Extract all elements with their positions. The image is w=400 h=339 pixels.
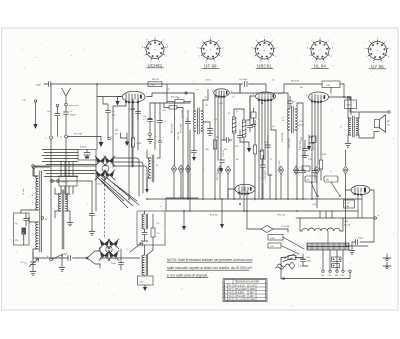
svg-text:G: G (32, 195, 34, 197)
svg-text:27kΩ: 27kΩ (150, 85, 156, 87)
svg-text:M: M (45, 219, 47, 221)
node L (50, 136, 53, 139)
faint scan bleed-through (40, 30, 217, 57)
svg-text:C9 3300: C9 3300 (182, 109, 184, 118)
svg-text:50+50: 50+50 (344, 224, 351, 226)
svg-text:R15 470k: R15 470k (282, 132, 284, 142)
IF transformer IFT1 (187, 93, 203, 199)
svg-text:C16-17: C16-17 (96, 184, 104, 186)
terminals under dropper (322, 250, 324, 270)
mains switch S2 (281, 254, 303, 262)
OM oscillator coil (142, 255, 145, 275)
label plates (305, 176, 317, 182)
wires gang to right (113, 158, 147, 196)
line y218 (296, 217, 374, 219)
svg-text:50pF: 50pF (36, 85, 42, 87)
wire: ground/cathode bus (166, 210, 358, 212)
UCH81 pin wires (113, 99, 138, 199)
svg-text:NOTA: Tutte le tensioni indica: NOTA: Tutte le tensioni indicate nel pre… (167, 258, 253, 262)
cap + label x188 before IFT1 (186, 110, 191, 199)
svg-text:~~~~ ~~ ~~~~~ ~~: ~~~~ ~~ ~~~~~ ~~ (50, 48, 84, 53)
svg-text:= resist.: = resist. (298, 257, 306, 260)
small box x253 (251, 112, 256, 118)
svg-text:IFT2: IFT2 (283, 116, 285, 121)
dial lamps / pilot connectors (171, 165, 176, 173)
rating plate (344, 200, 355, 208)
wire: AVC bus (mid) (147, 198, 362, 200)
svg-text:= pot.: = pot. (298, 265, 304, 268)
fan wires gang to osc coil (96, 176, 139, 208)
IFT2 (283, 103, 297, 199)
wire: top HT bus (51, 84, 266, 91)
filter cap 50uF (352, 240, 374, 251)
svg-text:0,5A: 0,5A (345, 205, 350, 208)
svg-text:0,02µF: 0,02µF (297, 125, 305, 127)
RF chokes (hatched) (232, 117, 236, 133)
tube UBC81 (256, 92, 276, 101)
cap + trimmer inside box (141, 233, 148, 242)
ground arrow left of UCH81 (118, 97, 122, 102)
padder box left of gang (78, 150, 96, 161)
wire verticals mid-section (183, 120, 190, 211)
mech link dashed (104, 172, 106, 239)
svg-text:R.TV: R.TV (345, 203, 351, 205)
svg-text:R15 0,5M: R15 0,5M (289, 138, 291, 148)
svg-text:0,01µF: 0,01µF (345, 98, 353, 100)
resistors/caps on verticals (213, 140, 216, 149)
svg-text:50µF: 50µF (358, 238, 364, 240)
small legend box + diamond (288, 256, 296, 260)
OC oscillator shield box (137, 211, 165, 245)
resistor R1 to chassis (68, 136, 102, 138)
right-edge aerial/earth terminals (383, 254, 391, 258)
diamond x296 on lamp row (293, 166, 298, 174)
svg-text:5000: 5000 (306, 260, 312, 262)
coil L7 inside (142, 214, 145, 229)
svg-text:5000: 5000 (270, 238, 276, 240)
anode run to IFT2 (240, 84, 288, 109)
grounds below detector (221, 199, 223, 224)
svg-text:C13 5000: C13 5000 (265, 170, 267, 180)
junction line y181 (51, 180, 54, 183)
junction dot UBC81 (261, 102, 263, 104)
output transformer T1 (341, 96, 379, 140)
screen grid network (150, 84, 190, 103)
junction dots (65, 198, 67, 200)
tube socket UBC81 (basing diagram) (251, 37, 278, 68)
inline resistor R9 on bus (148, 82, 162, 87)
anode wire to IFT1 (147, 93, 195, 111)
svg-text:R3 27k: R3 27k (171, 97, 179, 99)
capacitor C1 50pF at HT corner (44, 82, 51, 87)
earth switch + terminal (50, 258, 53, 261)
svg-text:R15 0,5M: R15 0,5M (279, 160, 281, 170)
coil L2 (ferrite) (36, 222, 39, 249)
tube UY85 rectifier (351, 185, 370, 194)
extra mid caps/grounds (det/IF area) (208, 129, 213, 134)
wire from band switch (100, 257, 140, 259)
svg-text:UCH81: UCH81 (148, 63, 163, 68)
ground right of pot (287, 229, 289, 232)
svg-text:R6 0,15M: R6 0,15M (172, 123, 174, 133)
tuning gang section 2 (arrows) (99, 239, 119, 261)
speaker AP (375, 115, 391, 132)
svg-text:~ ~~~~ ~: ~ ~~~~ ~ (200, 30, 217, 35)
svg-text:100pF: 100pF (70, 115, 77, 117)
scan speckle (9, 37, 394, 306)
ground under OT (345, 140, 351, 147)
volume pot (diamond) (247, 228, 288, 230)
svg-text:C8 50: C8 50 (205, 80, 212, 82)
svg-text:0,5pF: 0,5pF (62, 254, 68, 256)
long HT vertical to rectifier (346, 150, 369, 246)
screen caps (261, 155, 266, 199)
svg-text:UL 84: UL 84 (314, 63, 326, 68)
caps/resistors under UBC81 (260, 150, 263, 159)
svg-text:470pF: 470pF (80, 147, 87, 149)
svg-text:R16 10k: R16 10k (277, 215, 286, 217)
line cap (301, 254, 309, 266)
voltage table (223, 279, 267, 302)
capacitor C2 (64, 106, 69, 135)
svg-text:C11 50: C11 50 (223, 149, 225, 157)
ballast dropper (hatched) (307, 243, 349, 250)
mixer bias parts (121, 133, 128, 142)
tube socket UY 85 (basing diagram) (364, 38, 391, 69)
svg-text:25pF: 25pF (111, 263, 117, 265)
tuning gang C16/C17 (arrows) (95, 156, 115, 180)
svg-text:OM: OM (140, 282, 144, 284)
electrolytic marker (148, 118, 152, 119)
tone boxes (268, 235, 283, 241)
svg-text:~~ ~~~~ ~~~: ~~ ~~~~ ~~~ (95, 40, 119, 45)
heater chain scallops (302, 228, 340, 231)
pin seals (125, 101, 127, 103)
junction circle on R1 line (108, 137, 111, 140)
component value labels (152, 79, 332, 206)
coupling coils L3 L4 (62, 190, 64, 249)
svg-text:TENSIONI DI LAVORO: TENSIONI DI LAVORO (235, 281, 260, 284)
cap under IFT1, ground (192, 151, 197, 158)
ground (arrow) at R1 (100, 137, 102, 143)
tube socket UL 84 (basing diagram) (307, 37, 334, 68)
wire: left drop from HT bus (50, 84, 52, 258)
svg-text:R7 0,18M: R7 0,18M (181, 123, 183, 133)
trimmer C3 and ground (31, 252, 36, 271)
grid cap C5 (103, 97, 111, 138)
fuse boxes (332, 257, 342, 262)
switch block box (59, 176, 77, 186)
wire y166 ferrite to gang (32, 165, 35, 168)
svg-text:~~ ~~~: ~~ ~~~ (120, 52, 133, 57)
svg-text:presa ant.: presa ant. (69, 104, 79, 107)
svg-text:R13 0,5M: R13 0,5M (268, 135, 270, 145)
tone cap 0,01 box (345, 100, 357, 109)
note text (167, 258, 253, 278)
wire bundle to band switch (42, 150, 78, 162)
svg-text:e con radio priva di segnale.: e con radio priva di segnale. (167, 274, 208, 278)
node F (65, 135, 68, 138)
power-side diamonds (217, 166, 222, 174)
svg-text:UF 89: UF 89 (204, 63, 217, 68)
wire: UBC81 anode to UL84 grid (279, 84, 344, 93)
svg-text:R14 4k7: R14 4k7 (210, 215, 219, 217)
capacitor Ca (series, top bus) (245, 82, 248, 87)
svg-text:R1 470k: R1 470k (74, 134, 83, 136)
svg-text:121 a 105V: 121 a 105V (235, 298, 248, 301)
svg-text:BU: BU (326, 180, 329, 182)
auto-antenna lead (34, 100, 36, 102)
osc cathode junctions (159, 140, 162, 143)
caps at 297/303 (295, 171, 306, 200)
extra verticals fill (247, 96, 253, 132)
svg-text:Rg 500k: Rg 500k (291, 81, 300, 83)
node on y167 line (33, 166, 36, 169)
svg-text:UY 85: UY 85 (371, 64, 384, 69)
svg-text:~~~~~ ~~~ ~~~~~: ~~~~~ ~~~ ~~~~~ (40, 34, 73, 39)
svg-text:R8 2,2M: R8 2,2M (217, 172, 219, 180)
screen resistor boxes right of tube (175, 100, 184, 103)
tube UBC81 diode section (detector) (235, 184, 255, 194)
svg-text:OM-OC: OM-OC (61, 182, 69, 184)
resistor R2 on x138 (131, 138, 134, 147)
wire bottom-left run (33, 252, 87, 258)
wires into box (145, 245, 154, 255)
tube UF89 (214, 89, 230, 97)
UL84 screen resistor w/ ground (309, 135, 313, 143)
caps under UCH81 (136, 99, 141, 120)
tube socket UF 89 (basing diagram) (197, 37, 224, 68)
ground L4 (67, 218, 73, 226)
aux antenna tap (56, 104, 58, 106)
cathode R/C (319, 160, 322, 169)
wire IFT1 sec to UF89 grid (203, 90, 208, 101)
core adjust arrow (146, 182, 148, 189)
cap x290 top (288, 96, 293, 108)
tube socket UCH81 (basing diagram) (142, 37, 169, 68)
svg-text:105V: 105V (250, 298, 256, 301)
svg-text:Ca 50pF: Ca 50pF (239, 79, 248, 81)
osc coil L5 (152, 155, 154, 182)
svg-text:state misurate rispetto al tel: state misurate rispetto al telaio con an… (167, 266, 253, 270)
svg-text:UBC81: UBC81 (257, 63, 272, 68)
svg-text:R9 22k: R9 22k (152, 79, 160, 81)
antenna (62, 88, 71, 103)
grid line continuation (95, 160, 97, 211)
AC mains squiggle (278, 264, 290, 267)
svg-text:P1 0,5M: P1 0,5M (281, 226, 289, 228)
svg-text:L2 osc.: L2 osc. (23, 233, 25, 240)
tube UL84 (309, 92, 329, 102)
UF89 pin wires (215, 95, 224, 199)
svg-text:500V: 500V (347, 105, 353, 107)
svg-text:2,2M: 2,2M (137, 143, 142, 145)
trimmer arrow across coil (130, 243, 143, 252)
coil L1 (ferrite) (36, 176, 39, 210)
tube UCH81 (triode-heptode, schematic) (122, 91, 145, 102)
svg-text:L1 ant.: L1 ant. (22, 188, 25, 195)
coupling box Cx (322, 81, 340, 88)
svg-text:R10 22k: R10 22k (178, 131, 180, 140)
ferrite rod core (40, 171, 42, 252)
extra bundle lines lower (44, 165, 95, 177)
svg-text:OC: OC (157, 233, 161, 235)
frame antenna box w/ padder (14, 213, 30, 245)
band switch wafer (87, 247, 100, 268)
component x305 mid (302, 140, 308, 157)
label box on bus right (302, 166, 310, 171)
